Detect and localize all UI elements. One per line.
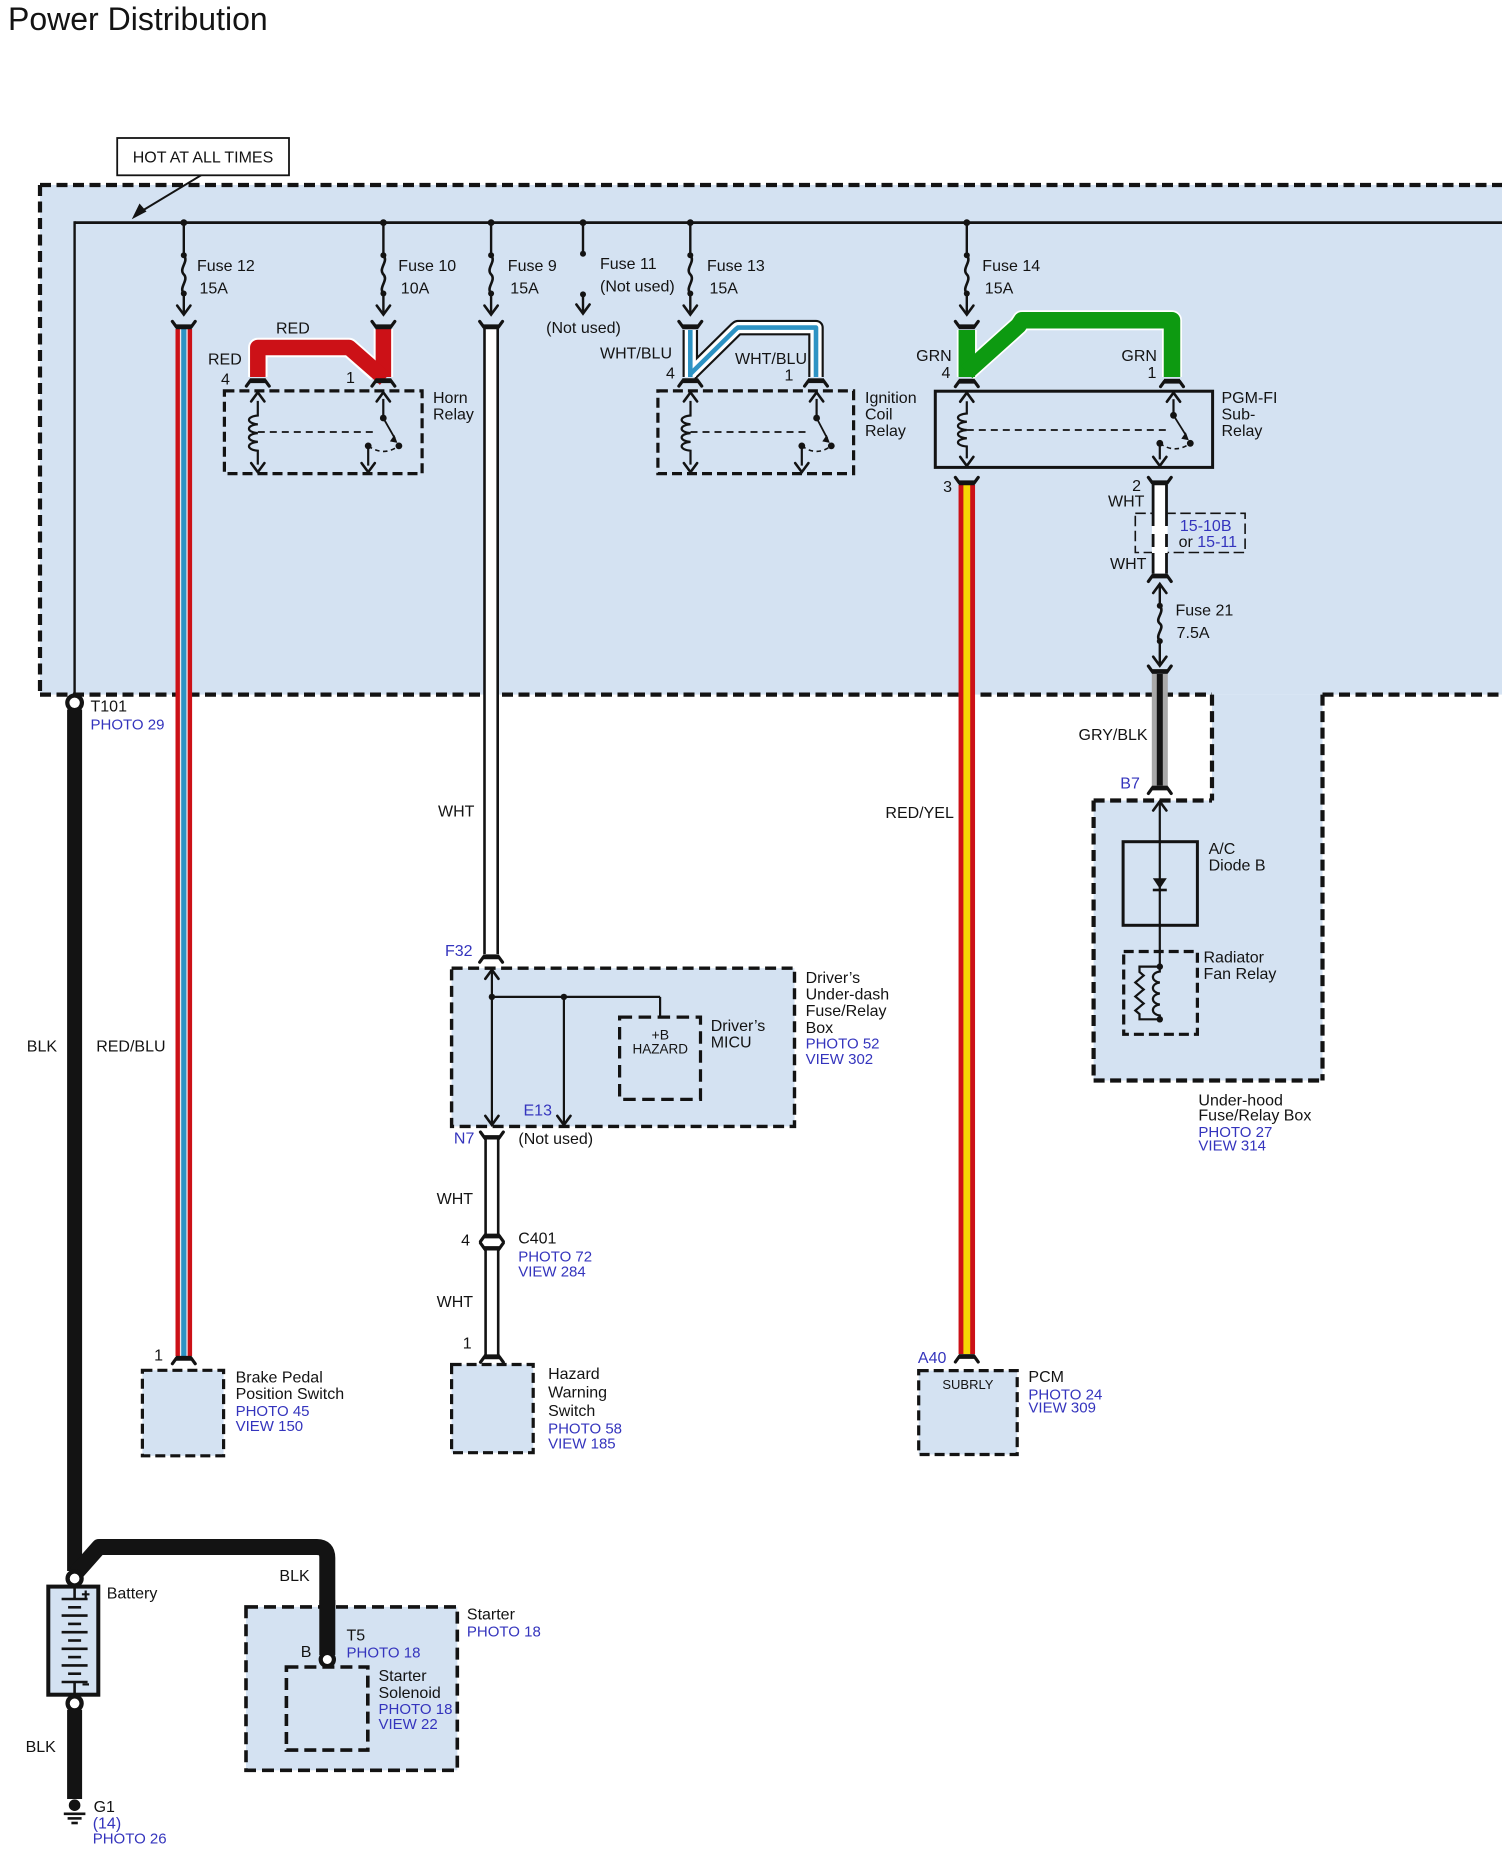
ignition coil relay label <box>865 390 917 440</box>
svg-text:Ignition: Ignition <box>865 390 917 407</box>
svg-text:Coil: Coil <box>865 406 893 423</box>
svg-text:PCM: PCM <box>1028 1369 1064 1386</box>
svg-text:Fuse 21: Fuse 21 <box>1176 603 1234 620</box>
svg-text:Fuse 13: Fuse 13 <box>707 258 765 275</box>
svg-text:HAZARD: HAZARD <box>633 1041 689 1056</box>
page link box 15-10B or 15-11 <box>1135 513 1245 552</box>
svg-text:GRN: GRN <box>1121 348 1157 365</box>
svg-text:Hazard: Hazard <box>548 1366 600 1383</box>
internal junction node E13 branch <box>561 994 567 1000</box>
svg-text:VIEW 309: VIEW 309 <box>1028 1400 1096 1417</box>
label A/C Diode B <box>1209 841 1266 875</box>
svg-text:BLK: BLK <box>26 1739 57 1756</box>
svg-text:(Not used): (Not used) <box>518 1131 593 1148</box>
svg-text:Power Distribution: Power Distribution <box>8 1 268 37</box>
svg-text:T101: T101 <box>91 699 128 716</box>
wire BLK T101 to battery <box>67 710 82 1572</box>
svg-text:RED/BLU: RED/BLU <box>96 1039 165 1056</box>
svg-text:1: 1 <box>1148 365 1157 382</box>
radiator fan relay box <box>1124 952 1198 1035</box>
svg-text:E13: E13 <box>524 1103 553 1120</box>
horn relay switch <box>362 392 403 472</box>
horn relay coil <box>249 392 264 472</box>
under-hood lower box left border <box>1091 801 1095 1081</box>
svg-text:Battery: Battery <box>107 1586 158 1603</box>
svg-text:15A: 15A <box>985 280 1014 297</box>
svg-text:or 15-11: or 15-11 <box>1179 534 1238 551</box>
PGM-FI sub-relay mechanical link <box>967 429 1166 431</box>
internal junction node <box>489 994 495 1000</box>
+B HAZARD box (MICU input) <box>620 1017 701 1099</box>
svg-text:WHT/BLU: WHT/BLU <box>600 346 672 363</box>
starter solenoid box <box>286 1667 367 1750</box>
connector horn relay pin 4 <box>246 381 269 386</box>
svg-text:PHOTO 52: PHOTO 52 <box>806 1035 880 1052</box>
svg-text:Box: Box <box>806 1020 834 1037</box>
svg-text:1: 1 <box>346 370 355 387</box>
wire from bus down to T101 <box>73 221 75 696</box>
ignition coil relay mechanical link <box>691 431 810 433</box>
PGM-FI sub-relay switch <box>1153 393 1194 466</box>
fuse 21 label <box>1176 603 1234 642</box>
wire BLK battery to ground <box>67 1710 82 1799</box>
wire RED fuse10 to horn relay pin 1 (with casing) <box>258 329 385 379</box>
horn relay box <box>224 391 422 474</box>
svg-text:+B: +B <box>652 1027 670 1043</box>
under-hood lower box bottom border <box>1094 1078 1323 1082</box>
svg-text:SUBRLY: SUBRLY <box>942 1377 993 1392</box>
svg-text:Fuse/Relay Box: Fuse/Relay Box <box>1198 1108 1311 1125</box>
svg-text:Warning: Warning <box>548 1385 607 1402</box>
connector at fuse 12 output <box>172 321 195 326</box>
PGM-FI sub-relay box <box>935 391 1212 467</box>
svg-text:T5: T5 <box>347 1627 366 1644</box>
svg-text:GRN: GRN <box>916 348 952 365</box>
fuse 11 label <box>600 256 675 296</box>
svg-text:WHT/BLU: WHT/BLU <box>735 351 807 368</box>
fuse 13 symbol <box>684 219 697 314</box>
under-hood box left border <box>38 185 42 695</box>
battery negative terminal <box>68 1696 82 1710</box>
label PCM <box>1028 1369 1102 1417</box>
ground G1 symbol <box>64 1799 86 1823</box>
svg-text:15A: 15A <box>200 280 229 297</box>
under-hood fuse/relay box blue area (top) <box>40 185 1502 695</box>
svg-text:Fuse 10: Fuse 10 <box>398 258 456 275</box>
under-hood box top border <box>40 183 1502 187</box>
svg-text:PHOTO 26: PHOTO 26 <box>93 1831 167 1848</box>
svg-text:4: 4 <box>461 1232 470 1249</box>
connector N7 <box>481 1132 504 1137</box>
label Driver's Under-dash Fuse/Relay Box <box>806 970 890 1068</box>
label T101 <box>91 699 165 734</box>
svg-text:Fuse 9: Fuse 9 <box>508 258 557 275</box>
fuse 14 symbol <box>960 219 973 314</box>
ignition coil relay box <box>658 391 854 474</box>
connector T101 <box>67 696 82 711</box>
svg-text:Fan Relay: Fan Relay <box>1204 966 1277 983</box>
A/C diode B box <box>1123 842 1197 926</box>
svg-text:WHT: WHT <box>438 804 475 821</box>
svg-text:Fuse 14: Fuse 14 <box>982 258 1040 275</box>
svg-text:Starter: Starter <box>467 1607 516 1624</box>
fuse 9 label <box>508 258 557 298</box>
svg-text:B7: B7 <box>1120 776 1140 793</box>
svg-text:1: 1 <box>154 1348 163 1365</box>
svg-text:Solenoid: Solenoid <box>379 1685 441 1702</box>
svg-text:RED: RED <box>208 352 242 369</box>
svg-text:(Not used): (Not used) <box>546 320 621 337</box>
svg-text:A/C: A/C <box>1209 841 1236 858</box>
wire WHT fuse9 down to F32 driver under-dash box <box>483 329 499 954</box>
arrow from label to bus <box>132 175 201 219</box>
svg-text:Fuse 11: Fuse 11 <box>600 256 657 273</box>
wire RED/BLU fuse12 down to brake pedal position switch <box>176 329 193 1356</box>
svg-text:7.5A: 7.5A <box>1177 625 1210 642</box>
connector brake pedal switch pin 1 <box>172 1358 195 1363</box>
starter box <box>246 1607 457 1770</box>
label Driver's MICU <box>711 1018 766 1052</box>
connector at fuse 14 output <box>955 321 978 326</box>
fuse 9 symbol <box>485 219 498 314</box>
svg-text:C401: C401 <box>518 1231 556 1248</box>
fuse 12 symbol <box>177 219 190 314</box>
horn relay label <box>433 390 474 424</box>
driver's under-dash fuse/relay box <box>452 968 795 1126</box>
fuse 10 label <box>398 258 456 298</box>
svg-text:HOT AT ALL TIMES: HOT AT ALL TIMES <box>133 150 274 167</box>
svg-text:Horn: Horn <box>433 390 468 407</box>
under-hood box bottom border (right part) <box>1323 692 1502 696</box>
svg-text:1: 1 <box>785 368 794 385</box>
svg-text:VIEW 302: VIEW 302 <box>806 1051 874 1068</box>
svg-text:10A: 10A <box>401 280 430 297</box>
svg-text:Relay: Relay <box>433 406 474 423</box>
power bus wire (hot at all times) <box>75 221 1502 224</box>
svg-text:Fuse 12: Fuse 12 <box>197 258 255 275</box>
under-hood box channel left border <box>1210 695 1214 801</box>
ignition coil relay coil <box>682 392 697 472</box>
svg-text:VIEW 284: VIEW 284 <box>518 1264 586 1281</box>
PCM box <box>919 1371 1018 1455</box>
hazard warning switch box <box>452 1365 534 1453</box>
svg-text:BLK: BLK <box>27 1039 58 1056</box>
diode symbol <box>1153 878 1167 890</box>
under-hood fuse/relay box blue area (channel + lower box) <box>1094 695 1323 1081</box>
svg-text:15-10B: 15-10B <box>1180 518 1232 535</box>
PGM-FI sub-relay label <box>1222 390 1278 440</box>
svg-text:Fuse/Relay: Fuse/Relay <box>806 1003 887 1020</box>
fuse 14 label <box>982 258 1040 298</box>
connector at fuse 13 output <box>679 321 702 326</box>
wire into under-hood box with arrow <box>1153 802 1166 967</box>
svg-text:A40: A40 <box>918 1350 947 1367</box>
wire BLK into starter to T5 <box>319 1600 335 1655</box>
radiator fan relay coil and resistor <box>1135 963 1163 1022</box>
connector at fuse 9 output <box>480 321 503 326</box>
svg-text:15A: 15A <box>510 280 539 297</box>
svg-text:VIEW 150: VIEW 150 <box>236 1418 304 1435</box>
wire RED/YEL PGM-FI pin3 down to PCM A40 <box>959 485 976 1354</box>
connector ignition relay pin 4 <box>679 381 702 386</box>
svg-text:4: 4 <box>942 365 951 382</box>
label Under-hood Fuse/Relay Box <box>1198 1093 1311 1155</box>
svg-text:MICU: MICU <box>711 1035 752 1052</box>
brake pedal position switch box <box>142 1370 223 1456</box>
connector C401 upper half <box>481 1236 504 1241</box>
svg-text:F32: F32 <box>445 943 473 960</box>
svg-text:4: 4 <box>221 371 230 388</box>
svg-text:Radiator: Radiator <box>1204 950 1265 967</box>
wire WHT C401 to hazard warning switch <box>484 1251 499 1355</box>
wire WHT PGM-FI pin2 down through 15-10B link <box>1153 485 1166 574</box>
internal wire to E13 (not used) <box>557 997 570 1125</box>
label T5 PHOTO 18 <box>347 1627 421 1661</box>
svg-text:1: 1 <box>463 1336 472 1353</box>
svg-text:RED/YEL: RED/YEL <box>885 805 954 822</box>
svg-text:PHOTO 18: PHOTO 18 <box>347 1645 421 1662</box>
connector WHT wire lower end <box>1148 576 1171 581</box>
svg-text:GRY/BLK: GRY/BLK <box>1079 727 1148 744</box>
svg-text:Driver’s: Driver’s <box>711 1018 766 1035</box>
fuse 10 symbol <box>377 219 390 314</box>
connector PGM-FI relay pin 3 <box>955 477 978 482</box>
svg-text:PGM-FI: PGM-FI <box>1222 390 1278 407</box>
connector PGM-FI relay pin 2 <box>1148 477 1171 482</box>
connector C401 lower half <box>481 1243 504 1248</box>
battery <box>48 1587 98 1695</box>
fuse 21 symbol <box>1153 584 1166 666</box>
svg-text:WHT: WHT <box>437 1294 474 1311</box>
label Hazard Warning Switch <box>548 1366 622 1452</box>
under-hood box bottom border (left part) <box>40 692 1212 696</box>
svg-text:Brake Pedal: Brake Pedal <box>236 1370 323 1387</box>
svg-text:WHT: WHT <box>1108 493 1145 510</box>
svg-text:VIEW 22: VIEW 22 <box>379 1716 438 1733</box>
internal branch wire to MICU <box>492 997 660 1017</box>
svg-text:4: 4 <box>666 365 675 382</box>
PGM-FI sub-relay coil <box>958 393 973 466</box>
label Brake Pedal Position Switch <box>236 1370 345 1435</box>
label Starter Solenoid <box>379 1668 453 1733</box>
connector B7 <box>1148 788 1171 793</box>
wire WHT N7 to C401 <box>484 1140 499 1235</box>
label C401 <box>518 1231 592 1281</box>
fuse 13 label <box>707 258 765 298</box>
connector PGM-FI relay pin 4 <box>955 381 978 386</box>
internal wire F32 to N7 <box>485 970 498 1125</box>
svg-text:Relay: Relay <box>1222 423 1263 440</box>
svg-text:G1: G1 <box>94 1799 115 1816</box>
wire GRY/BLK fuse21 to B7 <box>1152 674 1168 786</box>
svg-text:VIEW 185: VIEW 185 <box>548 1435 616 1452</box>
svg-text:BLK: BLK <box>279 1568 310 1585</box>
wire BLK branch to starter <box>76 1547 327 1653</box>
connector GRY/BLK top <box>1148 666 1171 671</box>
under-hood lower box right border <box>1320 695 1324 1081</box>
label G1 (14) PHOTO 26 <box>93 1799 167 1848</box>
wire WHT/BLU fuse13 to ignition coil relay pins <box>690 328 816 377</box>
svg-text:Diode B: Diode B <box>1209 858 1266 875</box>
connector at fuse 10 output <box>372 321 395 326</box>
svg-text:VIEW 314: VIEW 314 <box>1198 1138 1266 1155</box>
svg-text:15A: 15A <box>710 280 739 297</box>
svg-text:3: 3 <box>943 479 952 496</box>
connector PCM A40 <box>955 1357 978 1362</box>
svg-text:PHOTO 29: PHOTO 29 <box>91 717 165 734</box>
ignition coil relay switch <box>795 392 834 472</box>
svg-text:Under-dash: Under-dash <box>806 987 890 1004</box>
svg-text:RED: RED <box>276 321 310 338</box>
svg-text:(Not used): (Not used) <box>600 278 675 295</box>
svg-text:B: B <box>301 1644 312 1661</box>
under-hood lower box top border <box>1094 798 1212 802</box>
svg-text:Relay: Relay <box>865 423 906 440</box>
svg-text:Driver’s: Driver’s <box>806 970 861 987</box>
svg-text:N7: N7 <box>454 1131 475 1148</box>
fuse 11 not-used arrow <box>576 291 589 313</box>
fuse 11 (not used) stub <box>580 219 587 257</box>
connector ignition relay pin 1 <box>805 381 828 386</box>
connector PGM-FI relay pin 1 <box>1161 381 1184 386</box>
svg-text:WHT: WHT <box>437 1191 474 1208</box>
svg-text:PHOTO 18: PHOTO 18 <box>467 1624 541 1641</box>
battery positive terminal <box>68 1572 82 1586</box>
wire GRN fuse14 to PGM-FI sub-relay pins <box>967 320 1172 377</box>
fuse 12 label <box>197 258 255 298</box>
horn relay mechanical link <box>258 431 376 433</box>
connector horn relay pin 1 <box>372 381 395 386</box>
svg-text:Switch: Switch <box>548 1403 595 1420</box>
svg-text:WHT: WHT <box>1110 556 1147 573</box>
HOT AT ALL TIMES label box <box>117 138 289 175</box>
label Starter PHOTO 18 <box>467 1607 541 1641</box>
svg-text:Starter: Starter <box>379 1668 428 1685</box>
connector F32 <box>480 957 503 962</box>
connector hazard switch pin 1 <box>481 1357 504 1362</box>
svg-text:Sub-: Sub- <box>1222 406 1256 423</box>
terminal T5 <box>321 1653 334 1666</box>
label Radiator Fan Relay <box>1204 950 1277 984</box>
svg-text:Position Switch: Position Switch <box>236 1386 345 1403</box>
